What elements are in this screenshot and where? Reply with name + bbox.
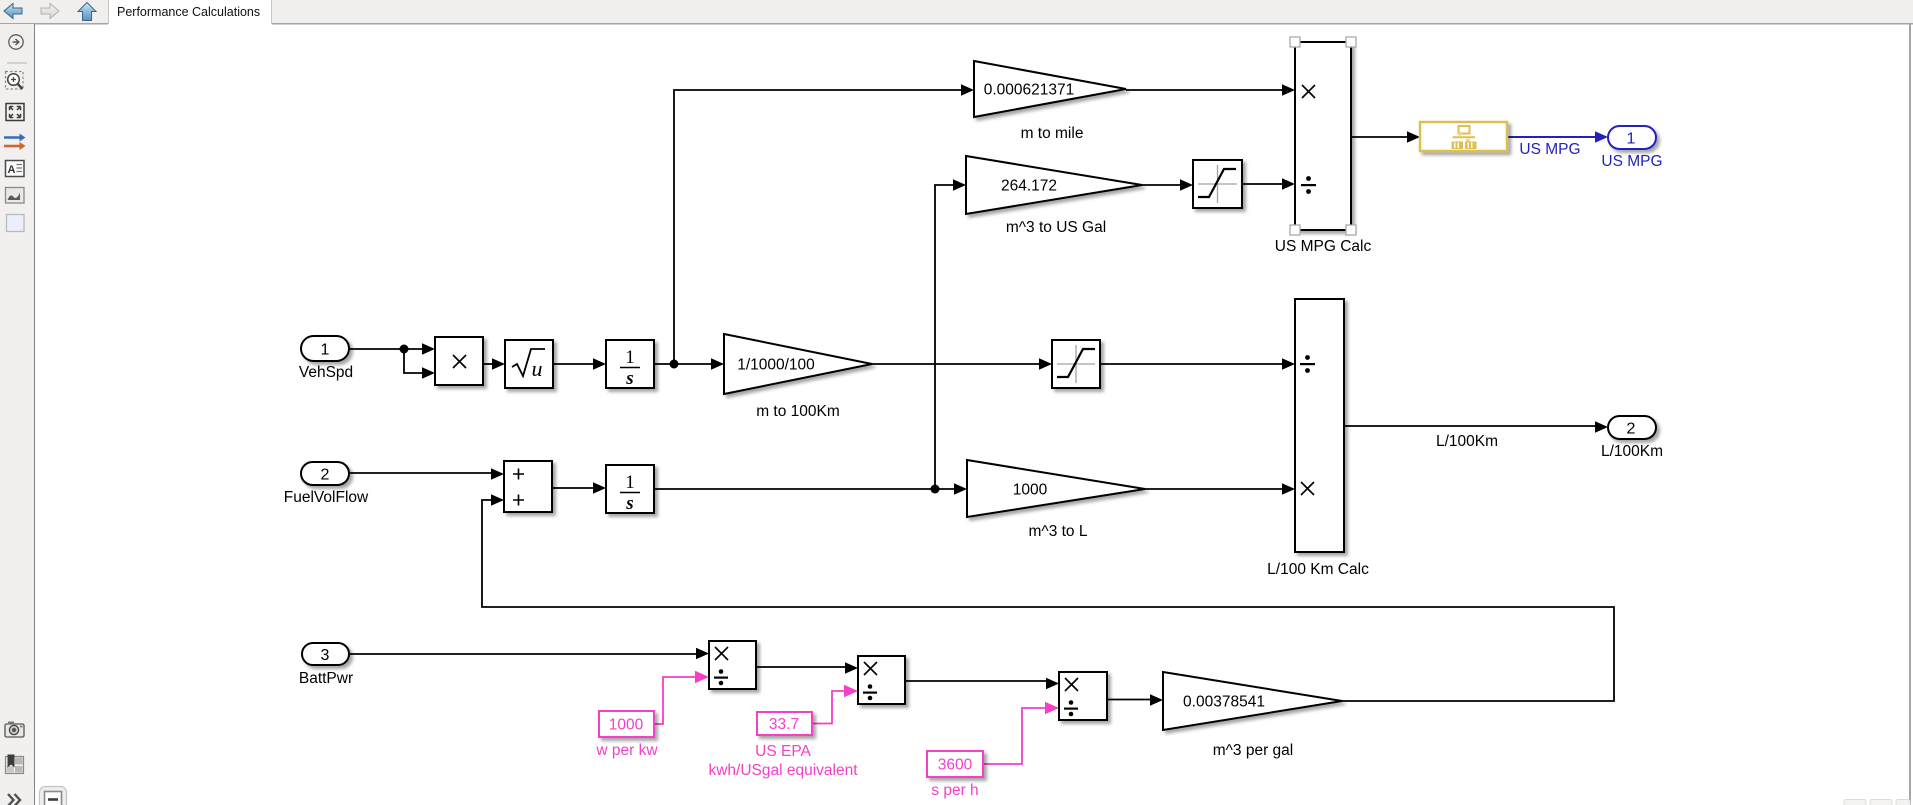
svg-text:1000: 1000: [1013, 482, 1048, 499]
svg-text:L/100 Km Calc: L/100 Km Calc: [1267, 561, 1369, 578]
collapse button: [40, 787, 67, 805]
svg-text:s: s: [625, 493, 633, 514]
svg-text:FuelVolFlow: FuelVolFlow: [284, 489, 369, 506]
wire US MPG (blue selected): [1507, 136, 1596, 138]
wire Integrator1 to gain m to 100Km: [654, 363, 712, 365]
arrow into gain m to 100Km: [711, 358, 724, 370]
svg-text:m to 100Km: m to 100Km: [756, 403, 840, 420]
Product C (divide): [1059, 672, 1107, 720]
wire Sqrt to Integrator1: [553, 363, 594, 365]
svg-text:L/100Km: L/100Km: [1601, 443, 1663, 460]
svg-text:US MPG: US MPG: [1601, 153, 1662, 170]
palette icon: zoom select: [6, 72, 24, 90]
wire L/100 Km Calc to Outport 2: [1344, 425, 1596, 427]
arrow into Integrator2: [593, 482, 606, 494]
svg-text:L/100Km: L/100Km: [1436, 433, 1498, 450]
wire Product B to Product C: [905, 680, 1047, 682]
arrow into Outport 1 (blue): [1595, 131, 1608, 143]
constant 33.7 (pink): [708, 712, 858, 779]
junction node after Integrator2: [931, 485, 940, 494]
Saturation 1: [1193, 160, 1242, 208]
gain m^3 per gal: [1163, 672, 1342, 759]
Product B (divide): [858, 656, 905, 704]
svg-text:m^3 per gal: m^3 per gal: [1213, 742, 1294, 759]
arrow into Sqrt: [492, 358, 505, 370]
Sum block: [504, 461, 552, 512]
wire riser to gain m to mile: [674, 90, 962, 364]
arrow into Integrator1: [593, 358, 606, 370]
arrow into Sum in1: [491, 468, 504, 480]
wire Product C to gain m^3 per gal: [1107, 699, 1151, 701]
svg-text:m^3 to L: m^3 to L: [1029, 523, 1088, 540]
US MPG Calc divide block (selected): [1275, 42, 1372, 255]
forward button: [41, 4, 59, 19]
gain m^3 to US Gal: [966, 156, 1142, 236]
arrow into gain m^3 per gal: [1150, 694, 1163, 706]
palette separator: [7, 62, 27, 64]
constant 3600 (pink): [927, 751, 983, 799]
wire gain m to mile to US MPG Calc in1: [1126, 89, 1283, 91]
palette icon: chevrons: [8, 794, 20, 805]
arrow into subsystem: [1407, 131, 1420, 143]
wire Sum to Integrator2: [552, 487, 594, 489]
wire Product to Sqrt: [483, 363, 493, 365]
pink wire constant w per kw to Product A in2: [654, 677, 697, 724]
selection handles of US MPG Calc: [1290, 37, 1356, 235]
pink wire constant 33.7 to Product B in2: [812, 691, 846, 724]
toolbar background: [0, 0, 1913, 23]
junction node after Integrator1: [670, 360, 679, 369]
svg-text:BattPwr: BattPwr: [299, 670, 353, 687]
arrow into US MPG Calc in2: [1282, 178, 1295, 190]
palette icon: explore arrow: [9, 35, 23, 49]
wire gain m^3 to L to L/100 Km Calc in2: [1145, 488, 1283, 490]
palette icon: area box: [7, 215, 25, 232]
pink arrow into Product B in2: [844, 685, 858, 697]
arrow into Product C in1: [1046, 678, 1059, 690]
svg-text:m to mile: m to mile: [1021, 125, 1084, 142]
svg-text:US EPA: US EPA: [755, 743, 811, 760]
svg-text:1000: 1000: [609, 717, 644, 734]
arrow into Saturation1: [1180, 179, 1193, 191]
arrow into Product B in1: [845, 662, 858, 674]
svg-text:0.000621371: 0.000621371: [984, 82, 1075, 99]
svg-text:s: s: [625, 368, 633, 389]
wire Integrator2 to gain m^3 to L: [654, 488, 955, 490]
wire gain m to 100Km to Saturation2: [872, 363, 1040, 365]
tab Performance Calculations: [108, 0, 272, 25]
svg-text:A: A: [8, 164, 16, 176]
wire Saturation1 to US MPG Calc in2: [1242, 183, 1283, 185]
pink arrow into Product A in2: [695, 671, 709, 683]
canvas right border: [1909, 24, 1911, 805]
wire Saturation2 to L/100 Km Calc in1: [1100, 363, 1283, 365]
svg-text:33.7: 33.7: [769, 716, 799, 733]
svg-text:264.172: 264.172: [1001, 178, 1057, 195]
arrow into Sum in2: [491, 494, 504, 506]
svg-text:1: 1: [321, 342, 330, 359]
back button: [4, 4, 22, 19]
left palette: [0, 24, 34, 805]
wire riser to gain m^3 to US Gal: [935, 185, 954, 489]
sqrt block: [505, 340, 553, 388]
wire Product A to Product B: [756, 666, 846, 668]
svg-text:2: 2: [1627, 421, 1636, 438]
Inport 1 VehSpd: [299, 336, 353, 381]
Integrator 2: [606, 465, 654, 514]
palette icon: signal arrows: [4, 134, 26, 151]
svg-text:w per kw: w per kw: [595, 742, 658, 759]
constant w per kw (pink): [595, 711, 658, 759]
Integrator 1: [606, 340, 654, 389]
arrow into gain m to mile: [961, 84, 974, 96]
svg-text:Performance Calculations: Performance Calculations: [117, 5, 260, 19]
Outport 1 US MPG (blue selected): [1601, 126, 1662, 170]
wire FuelVolFlow to Sum in1: [349, 472, 492, 474]
feedback wire gain m^3 per gal to Sum in2: [482, 500, 1614, 701]
svg-text:2: 2: [321, 467, 330, 484]
up button: [78, 3, 96, 21]
pink arrow into Product C in2: [1045, 702, 1059, 714]
Inport 3 BattPwr: [299, 643, 353, 687]
arrow into Product A in1: [696, 648, 709, 660]
gain m to 100Km: [724, 334, 872, 420]
arrow into gain m^3 to US Gal: [953, 179, 966, 191]
Saturation 2: [1052, 340, 1100, 388]
svg-text:s per h: s per h: [931, 782, 978, 799]
product block (VehSpd squared): [435, 337, 483, 385]
svg-text:1: 1: [625, 472, 635, 493]
palette icon: annotation: [6, 161, 25, 177]
L/100 Km Calc divide block: [1267, 299, 1369, 578]
Product A (divide): [709, 641, 756, 689]
arrow into Saturation2: [1039, 358, 1052, 370]
svg-text:1: 1: [1627, 131, 1636, 148]
svg-text:1: 1: [625, 347, 635, 368]
arrow into Product in2: [422, 367, 435, 379]
Outport 2 L/100Km: [1601, 416, 1663, 460]
arrow into US MPG Calc in1: [1282, 84, 1295, 96]
wire VehSpd to Product (with branch): [349, 349, 423, 373]
bottom right corner buttons: [1844, 800, 1910, 805]
arrow into L/100 Km Calc in1: [1282, 358, 1295, 370]
arrow into Product in1: [422, 343, 435, 355]
junction node at VehSpd branch: [400, 345, 409, 354]
arrow into gain m^3 to L: [954, 483, 967, 495]
svg-text:u: u: [532, 356, 543, 381]
gain m to mile: [974, 61, 1126, 142]
palette icon: image: [6, 188, 25, 204]
palette icon: fit to view: [6, 104, 24, 121]
svg-text:m^3 to US Gal: m^3 to US Gal: [1006, 219, 1106, 236]
wire BattPwr to Product A: [349, 653, 697, 655]
palette icon: report: [6, 755, 24, 774]
svg-text:US MPG Calc: US MPG Calc: [1275, 238, 1372, 255]
gain m^3 to L: [967, 460, 1145, 540]
arrow into Outport 2: [1595, 421, 1608, 433]
svg-text:1/1000/100: 1/1000/100: [737, 357, 815, 374]
wire US MPG Calc to subsystem: [1351, 136, 1408, 138]
pink wire constant 3600 to Product C in2: [983, 708, 1047, 764]
svg-text:VehSpd: VehSpd: [299, 364, 353, 381]
Inport 2 FuelVolFlow: [284, 462, 369, 506]
palette icon: camera: [5, 722, 24, 738]
subsystem (yellow linked block): [1420, 122, 1507, 151]
svg-text:kwh/USgal equivalent: kwh/USgal equivalent: [708, 762, 858, 779]
svg-text:US MPG: US MPG: [1519, 141, 1580, 158]
arrow into L/100 Km Calc in2: [1282, 483, 1295, 495]
svg-text:0.00378541: 0.00378541: [1183, 694, 1265, 711]
wire gain m^3 to US Gal to Saturation1: [1142, 184, 1181, 186]
svg-text:3: 3: [321, 647, 330, 664]
svg-text:3600: 3600: [938, 757, 973, 774]
